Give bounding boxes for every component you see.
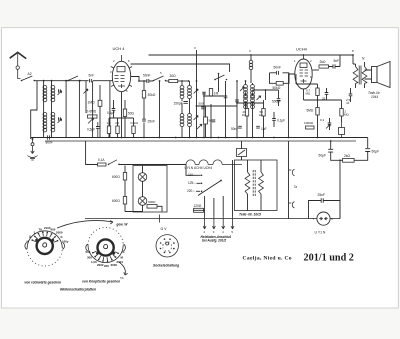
ground	[28, 138, 38, 160]
svg-text:3,0kΩ: 3,0kΩ	[130, 121, 139, 125]
node x144	[143, 80, 145, 82]
node x265	[265, 89, 267, 91]
wire left riser	[31, 81, 37, 139]
resistor 50k2	[259, 109, 265, 118]
svg-text:600Ω: 600Ω	[112, 199, 120, 203]
wire tube1 cathode drop	[121, 92, 123, 138]
svg-text:600Ω: 600Ω	[148, 200, 156, 204]
wire x133 drop	[133, 118, 135, 138]
svg-text:50nF: 50nF	[231, 127, 238, 131]
output transformer T-out	[353, 66, 367, 85]
antenna	[10, 52, 27, 78]
trimmer T2 bot	[257, 96, 261, 100]
node x159	[159, 80, 161, 82]
resistor 120ohm	[194, 204, 204, 213]
svg-text:50µF: 50µF	[319, 154, 327, 158]
wire rail B	[45, 140, 356, 142]
capacitor 0.1uF	[107, 109, 115, 115]
IF transformer T1 primary	[180, 86, 191, 99]
label Trafo-Nr	[368, 91, 381, 99]
plug Bu	[313, 212, 334, 225]
node T2	[245, 80, 247, 82]
resistor 1.0k	[107, 121, 112, 134]
wire coil column 2	[51, 81, 53, 138]
wire tube1 screen stub	[131, 77, 139, 82]
svg-text:Teile–Nr. 10c5: Teile–Nr. 10c5	[239, 213, 261, 217]
node mixer dots	[196, 95, 238, 138]
wire tube2 anode	[312, 69, 319, 71]
coil L1a	[43, 86, 47, 102]
wire x109/117 stubs	[109, 118, 134, 138]
wire mid horizontals	[197, 90, 279, 106]
lamp La2	[138, 197, 147, 206]
svg-text:1µF: 1µF	[261, 127, 267, 131]
label N	[362, 57, 365, 61]
trimmer T2 top	[240, 87, 244, 91]
svg-text:0,1A: 0,1A	[98, 158, 105, 162]
svg-text:bei Ausfg. 201/2: bei Ausfg. 201/2	[202, 238, 226, 242]
svg-text:220∼: 220∼	[187, 189, 195, 193]
switch wiper arrow	[84, 89, 89, 94]
wire column x101	[99, 85, 101, 138]
caption maker	[243, 256, 292, 262]
node g1	[138, 80, 140, 82]
capacitor 25nF plug	[318, 193, 326, 203]
svg-text:0,5µF: 0,5µF	[87, 128, 95, 132]
node 3 top	[194, 46, 196, 50]
svg-text:500: 500	[199, 102, 204, 106]
resistor 3.0k	[130, 121, 139, 134]
resistor 30ohm	[169, 74, 178, 82]
capacitor 150pF	[174, 101, 188, 105]
label von rueckwaerts	[24, 280, 61, 284]
wire x237	[236, 81, 238, 138]
svg-text:600Ω: 600Ω	[112, 175, 120, 179]
IF transformer T1 secondary	[180, 114, 191, 127]
resistor 5M	[307, 108, 320, 116]
svg-text:2001: 2001	[117, 260, 124, 264]
resistor x205	[204, 117, 213, 124]
resistor 2k anode	[319, 60, 329, 68]
switch A2	[21, 72, 35, 81]
wire x125 drop	[124, 100, 126, 138]
coil L2b	[51, 113, 55, 132]
capacitor 2.5nF	[346, 94, 352, 105]
switch mains left	[108, 160, 120, 165]
speaker LS	[372, 62, 391, 88]
capacitor osc2	[224, 96, 228, 98]
wire bottom rail	[85, 218, 340, 220]
svg-text:2002: 2002	[97, 263, 104, 267]
svg-text:500pF: 500pF	[272, 100, 281, 104]
heater arcs	[186, 160, 242, 165]
dial arc left	[57, 220, 128, 228]
wire rail A	[31, 137, 368, 139]
wire trafo top	[353, 62, 365, 88]
capacitor pad	[199, 102, 205, 109]
wire seg	[139, 80, 153, 82]
capacitor tone block	[339, 122, 345, 138]
wire x144	[143, 81, 145, 138]
switch S-osc	[214, 73, 227, 81]
svg-text:A2: A2	[28, 72, 32, 76]
resistor 20k	[242, 109, 249, 118]
coil L2a	[43, 113, 47, 132]
svg-text:5MΩ: 5MΩ	[307, 109, 314, 113]
capacitor 50uF left	[319, 149, 334, 157]
capacitor x237	[235, 100, 239, 102]
wire column x109	[109, 81, 111, 138]
speaker terminal 1	[289, 169, 295, 175]
caption model	[304, 252, 354, 263]
wire combo	[270, 73, 290, 84]
wire top rail	[149, 54, 354, 56]
capacitor osc1	[202, 92, 206, 94]
wire x196 top	[196, 50, 198, 81]
wire x367 down2	[354, 151, 368, 160]
capacitor 50nF det	[231, 126, 242, 131]
wire heater feed	[86, 141, 98, 165]
capacitor x211b	[212, 120, 216, 122]
svg-text:2kΩ: 2kΩ	[320, 60, 326, 64]
svg-text:U Y1 N: U Y1 N	[315, 230, 326, 234]
wire x288 bottom	[288, 141, 290, 219]
tube U2 UCH4	[294, 47, 312, 90]
wire seg2	[166, 80, 169, 82]
fuse 0.1A	[98, 158, 107, 166]
wire coil column 1	[43, 81, 45, 138]
wire x330	[331, 141, 340, 160]
wire plug loop	[309, 201, 341, 219]
svg-text:2000: 2000	[56, 231, 63, 235]
svg-text:300: 300	[87, 256, 92, 260]
node after30	[188, 80, 190, 82]
svg-text:900: 900	[51, 228, 56, 232]
svg-text:201/1 und 2: 201/1 und 2	[304, 252, 354, 263]
capacitor 50uF right	[365, 149, 379, 154]
svg-text:30kΩ: 30kΩ	[148, 93, 156, 97]
svg-text:gew. W: gew. W	[116, 223, 129, 227]
wire x159 drop	[159, 81, 161, 138]
svg-text:3: 3	[29, 235, 31, 239]
wire x113 drop	[113, 100, 115, 118]
svg-text:UCH4: UCH4	[296, 47, 308, 52]
resistor 600 a	[112, 173, 127, 181]
switch band upper	[67, 76, 81, 81]
trimmer T1 bot	[194, 116, 199, 121]
capacitor 0.5uF	[87, 122, 100, 138]
potentiometer vol	[197, 124, 202, 129]
svg-text:Wellenschalterplatten: Wellenschalterplatten	[60, 288, 96, 292]
svg-text:120Ω: 120Ω	[194, 204, 202, 208]
wire heater to arcs	[119, 164, 186, 166]
label Heizfaden	[201, 235, 232, 243]
svg-text:25nF: 25nF	[318, 193, 326, 197]
coil L-osc	[249, 60, 253, 69]
wire speaker leads	[365, 70, 372, 79]
svg-text:1000Ω: 1000Ω	[304, 121, 314, 125]
svg-text:50kΩ: 50kΩ	[273, 86, 281, 90]
node bottom tick	[159, 215, 161, 223]
speaker terminal 2	[289, 202, 295, 208]
wire osc verticals	[197, 74, 226, 138]
wire column x86	[85, 81, 87, 113]
svg-text:MΩ: MΩ	[306, 92, 311, 96]
trimmer C-ant2	[58, 117, 62, 123]
svg-text:MΩ: MΩ	[344, 113, 349, 117]
wire seg3	[178, 80, 189, 82]
resistor 50k osc	[273, 82, 284, 90]
resistor 30k	[142, 91, 156, 99]
svg-text:7a: 7a	[294, 185, 298, 189]
capacitor 50nF	[143, 73, 151, 83]
potentiometer 2-6M	[87, 110, 98, 124]
resistor 50ohm	[123, 109, 134, 117]
wire tube1 anode rail	[131, 64, 230, 72]
label heater tubes	[185, 166, 213, 170]
svg-text:2kΩ: 2kΩ	[344, 154, 350, 158]
svg-text:5nF: 5nF	[334, 59, 340, 63]
resistor 4.0k	[115, 121, 120, 134]
node a8	[352, 49, 354, 56]
svg-text:UCH 4: UCH 4	[113, 46, 126, 51]
svg-text:Sockelschaltung: Sockelschaltung	[153, 263, 179, 267]
power transformer primary	[245, 172, 250, 194]
IF transformer T2 secondary	[244, 96, 255, 109]
svg-text:150pF: 150pF	[174, 101, 183, 105]
svg-text:Ω V: Ω V	[161, 227, 168, 231]
switch S-if	[153, 71, 167, 81]
dial plate right	[86, 227, 126, 268]
wire column x79	[78, 81, 80, 138]
svg-text:1M: 1M	[214, 92, 219, 96]
dial plate left	[25, 226, 69, 266]
resistor 600 c	[147, 200, 157, 208]
wire 20k leads	[247, 100, 264, 138]
svg-text:50nF: 50nF	[274, 66, 282, 70]
svg-text:UY1N UCH4 UCH4: UY1N UCH4 UCH4	[185, 166, 213, 170]
node osc8	[249, 49, 252, 56]
svg-text:von Knopfseite gesehen: von Knopfseite gesehen	[82, 279, 120, 283]
coil L1b	[51, 86, 55, 102]
svg-text:von rückwärts gesehen: von rückwärts gesehen	[24, 280, 61, 284]
svg-text:200: 200	[104, 264, 109, 268]
resistor 1M	[88, 100, 102, 106]
IF transformer T2 primary	[244, 85, 255, 98]
node x237	[236, 80, 238, 138]
capacitor 25nF r	[322, 93, 328, 101]
wire antenna bus	[34, 80, 88, 82]
svg-text:1044: 1044	[371, 95, 378, 99]
capacitor 0.1uF tone	[320, 118, 331, 129]
power transformer secondary	[259, 172, 264, 194]
wire T1 leads	[182, 81, 190, 138]
capacitor 50nF osc	[274, 66, 282, 75]
heater pins	[203, 217, 234, 235]
wire right col wires	[296, 74, 351, 138]
selector lever	[198, 180, 222, 196]
svg-text:Caelja, Nied u. Co: Caelja, Nied u. Co	[243, 256, 292, 262]
wire selector wiring	[186, 160, 233, 217]
node T1	[175, 80, 191, 138]
lamp La1	[138, 173, 147, 182]
svg-text:50µF: 50µF	[372, 149, 380, 153]
wire osc coil lead	[250, 55, 252, 83]
svg-text:nF: nF	[346, 101, 350, 105]
wire bus to tube grid	[93, 80, 113, 82]
capacitor series 0.5nF	[89, 74, 95, 83]
wire column x92	[92, 81, 94, 138]
svg-text:50Ω: 50Ω	[128, 112, 135, 116]
capacitor 0.1uF det	[272, 119, 285, 123]
svg-text:5nF: 5nF	[89, 74, 95, 78]
node bus junctions	[43, 80, 81, 82]
resistor 1000ohm	[304, 121, 314, 129]
svg-text:50nF: 50nF	[143, 73, 151, 77]
tube U1 UCH4	[110, 46, 132, 93]
dial arc right	[119, 262, 128, 280]
capacitor 1uF	[256, 126, 266, 131]
wire T2 leads	[246, 81, 253, 138]
wire x265 drop	[265, 90, 267, 100]
label Sockelschaltung	[153, 263, 179, 267]
capacitor 500pF	[272, 99, 281, 104]
capacitor 80nF	[46, 135, 54, 144]
wire column x66	[65, 81, 67, 138]
wire x367 drop	[367, 138, 369, 149]
node x330	[330, 140, 341, 161]
trimmer C-ant1	[58, 89, 62, 95]
capacitor 25nF	[142, 119, 155, 123]
svg-text:0,1µF: 0,1µF	[277, 119, 285, 123]
tube socket bottom view	[156, 227, 178, 257]
svg-text:100y: 100y	[62, 240, 69, 244]
label 7a	[294, 185, 298, 189]
label UY1N	[315, 230, 326, 234]
switch mains top	[237, 149, 247, 157]
resistor 1M osc	[209, 89, 218, 97]
svg-text:0,1: 0,1	[320, 118, 325, 122]
svg-text:30Ω: 30Ω	[170, 74, 177, 78]
capacitor 5nF	[333, 59, 339, 69]
wire x205 drop	[205, 106, 207, 138]
wire x274	[273, 112, 275, 127]
resistor 2k B	[343, 154, 355, 162]
label Teile-Nr	[239, 213, 261, 217]
lamp box	[133, 166, 167, 213]
trimmer T1 top	[194, 89, 199, 94]
svg-text:1MΩ: 1MΩ	[88, 100, 96, 104]
wire top rail to trafo	[352, 55, 354, 64]
svg-text:2-6MΩ: 2-6MΩ	[87, 110, 97, 114]
transformer core	[253, 170, 255, 197]
wire tube2 grid left	[289, 74, 295, 138]
node osc	[196, 80, 227, 138]
label von Knopfseite	[82, 279, 120, 283]
wire trafo leads	[242, 141, 262, 211]
wire anode to trafo	[329, 55, 341, 67]
resistor 0.7M	[306, 88, 320, 96]
wire lamp wiring	[125, 166, 162, 212]
voltage taps	[187, 173, 202, 193]
resistor 600 b	[112, 197, 127, 205]
svg-text:125∼: 125∼	[188, 181, 196, 185]
svg-text:25nF: 25nF	[148, 120, 156, 124]
label Wellenschalterplatten	[60, 288, 96, 292]
node tube2 top	[303, 54, 305, 56]
svg-text:0,1µF: 0,1µF	[107, 111, 115, 115]
wire 2k left	[340, 160, 343, 218]
svg-text:50: 50	[209, 119, 213, 123]
wire x278	[278, 90, 280, 106]
transformer box	[235, 160, 278, 211]
svg-text:500: 500	[86, 250, 91, 254]
node rail joints	[121, 137, 319, 139]
resistor 2M	[340, 109, 350, 117]
